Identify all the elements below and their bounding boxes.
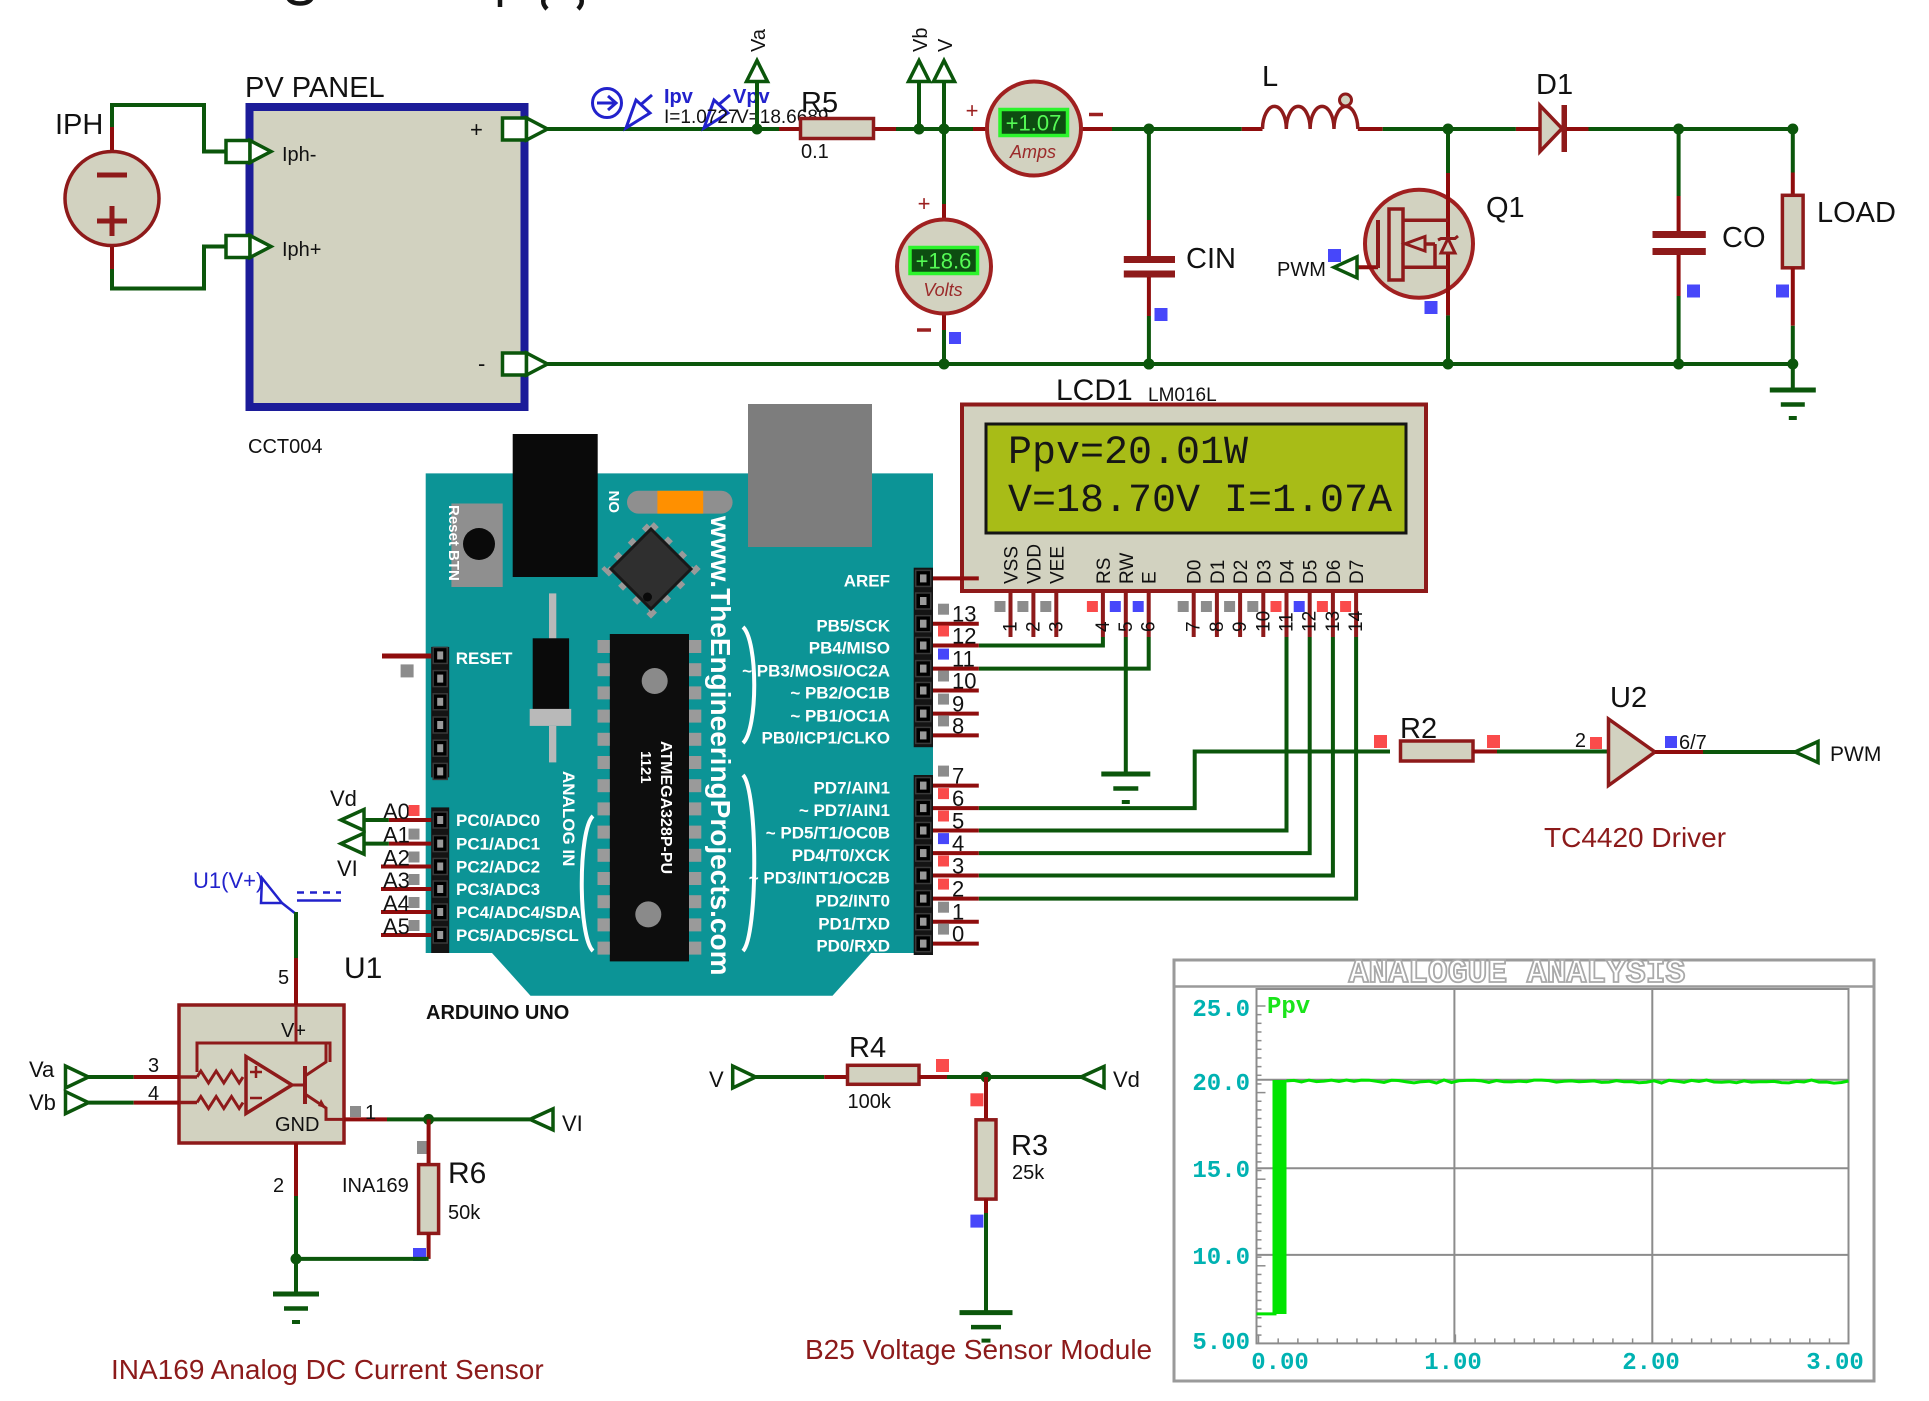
svg-text:Ipv: Ipv <box>664 86 694 108</box>
svg-text:V: V <box>935 38 957 52</box>
capacitor CO <box>1653 129 1766 364</box>
wire LCD D6 to Arduino 3 <box>979 637 1333 876</box>
current probe Ipv <box>593 89 622 118</box>
svg-text:INA169 Analog DC Current Senso: INA169 Analog DC Current Sensor <box>111 1354 544 1385</box>
svg-text:VI: VI <box>562 1111 583 1136</box>
svg-text:2: 2 <box>952 877 964 902</box>
svg-text:~ PD3/INT1/OC2B: ~ PD3/INT1/OC2B <box>749 869 890 888</box>
svg-text:PD0/RXD: PD0/RXD <box>816 937 890 956</box>
wire IPH to Iph+ input <box>112 247 226 289</box>
svg-text:D3: D3 <box>1254 560 1275 584</box>
wire R3 to ground <box>984 1213 988 1313</box>
probe arrow Ipv <box>626 95 652 128</box>
terminal Vd output <box>1081 1067 1104 1088</box>
graph x axis labels <box>1251 1334 1864 1377</box>
svg-text:RW: RW <box>1117 553 1138 584</box>
svg-text:CCT004: CCT004 <box>248 436 322 458</box>
LCD pin 7 D0 <box>1178 560 1206 637</box>
svg-text:10: 10 <box>952 669 976 694</box>
node Va junction <box>752 124 763 135</box>
pin 2 U1 <box>294 1143 298 1196</box>
wire R6 to ground bus <box>296 1257 429 1261</box>
wire LCD RS to Arduino 12 <box>979 637 1103 646</box>
terminal V <box>934 61 955 82</box>
svg-text:D2: D2 <box>1231 560 1252 584</box>
ammeter +1.07 Amps <box>966 82 1103 176</box>
header digital 8-13 AREF <box>914 568 933 748</box>
transistor Q1 MOSFET <box>1357 129 1525 364</box>
svg-text:PD1/TXD: PD1/TXD <box>818 915 890 934</box>
current source IPH <box>55 109 159 269</box>
LCD pin 8 D1 <box>1201 560 1229 637</box>
pin PD7/AIN1 <box>813 764 978 798</box>
svg-text:Va: Va <box>748 28 770 52</box>
terminal Vb input <box>66 1092 89 1114</box>
node VI junction <box>423 1114 434 1125</box>
svg-text:Vd: Vd <box>330 786 357 811</box>
resistor R6 50k <box>419 1119 487 1259</box>
svg-text:D5: D5 <box>1301 560 1322 584</box>
svg-text:Vpv: Vpv <box>733 86 771 108</box>
svg-text:3.00: 3.00 <box>1806 1350 1864 1377</box>
pin ~ PB2/OC1B <box>790 669 978 703</box>
terminal PWM output <box>1795 742 1818 763</box>
svg-text:A2: A2 <box>383 846 410 871</box>
svg-text:~ PB3/MOSI/OC2A: ~ PB3/MOSI/OC2A <box>742 662 890 681</box>
svg-text:E: E <box>1140 571 1161 584</box>
svg-text:PC1/ADC1: PC1/ADC1 <box>456 835 540 854</box>
node Q1 drain <box>1443 124 1454 135</box>
pin A0 <box>383 799 431 824</box>
LCD pin 4 RS <box>1087 558 1115 637</box>
node bus CIN <box>1143 359 1154 370</box>
svg-text:TC4420 Driver: TC4420 Driver <box>1544 822 1726 853</box>
svg-text:15.0: 15.0 <box>1192 1158 1250 1185</box>
pin A3 <box>381 868 431 893</box>
svg-text:RESET: RESET <box>456 649 513 668</box>
svg-text:Volts: Volts <box>923 280 962 300</box>
svg-text:PD4/T0/XCK: PD4/T0/XCK <box>792 846 891 865</box>
node CO bottom <box>1673 359 1684 370</box>
LCD pin 11 D4 <box>1271 559 1299 637</box>
svg-text:50k: 50k <box>448 1202 481 1224</box>
LCD pin 10 D3 <box>1247 560 1275 637</box>
svg-text:7: 7 <box>1184 621 1205 632</box>
svg-text:PC0/ADC0: PC0/ADC0 <box>456 811 540 830</box>
LCD pin 9 D2 <box>1224 560 1252 637</box>
capacitor CIN <box>1124 129 1236 364</box>
svg-text:Iph-: Iph- <box>282 144 316 166</box>
svg-text:U1(V+): U1(V+) <box>193 868 263 893</box>
pin 5 U1 <box>294 958 298 1005</box>
node CO top <box>1673 124 1684 135</box>
svg-text:V+: V+ <box>281 1020 306 1042</box>
svg-text:0: 0 <box>952 922 964 947</box>
pin ~ PB1/OC1A <box>790 692 978 726</box>
header ANALOG A0-A5 <box>431 807 449 953</box>
svg-text:13: 13 <box>1323 611 1344 632</box>
voltmeter +18.6 Volts <box>897 191 991 364</box>
terminal panel + <box>503 118 527 140</box>
svg-text:8: 8 <box>952 713 964 738</box>
svg-text:2: 2 <box>1575 730 1586 752</box>
node Vd junction <box>981 1072 992 1083</box>
node Q1 source <box>1443 359 1454 370</box>
terminal Vb <box>909 61 930 82</box>
svg-text:PD2/INT0: PD2/INT0 <box>815 892 890 911</box>
pin PB5/SCK <box>816 602 978 636</box>
svg-text:~ PB2/OC1B: ~ PB2/OC1B <box>790 684 890 703</box>
svg-text:R3: R3 <box>1011 1130 1048 1162</box>
svg-text:~ PD5/T1/OC0B: ~ PD5/T1/OC0B <box>766 824 890 843</box>
node CIN bottom <box>1143 359 1154 370</box>
svg-text:10: 10 <box>1253 611 1274 632</box>
svg-text:PB4/MISO: PB4/MISO <box>809 639 890 658</box>
svg-text:CIN: CIN <box>1186 243 1236 275</box>
svg-text:LOAD: LOAD <box>1817 197 1896 229</box>
LCD pin 5 RW <box>1110 553 1138 637</box>
svg-text:VDD: VDD <box>1024 544 1045 584</box>
terminal panel - <box>503 353 527 375</box>
svg-text:0.1: 0.1 <box>801 141 829 163</box>
pin ~ PB3/MOSI/OC2A <box>742 647 979 681</box>
svg-text:Vb: Vb <box>910 28 932 52</box>
LCD pin 2 VDD <box>1017 544 1045 637</box>
op-amp U1 INA169 <box>179 952 382 1143</box>
svg-text:D7: D7 <box>1347 560 1368 584</box>
wire LCD RW to ground <box>1124 637 1128 774</box>
svg-text:PC2/ADC2: PC2/ADC2 <box>456 858 540 877</box>
svg-text:2: 2 <box>1023 621 1044 632</box>
svg-text:AREF: AREF <box>844 571 890 590</box>
svg-text:Iph+: Iph+ <box>282 239 321 261</box>
ground LCD RW <box>1101 772 1150 777</box>
svg-text:R5: R5 <box>801 87 838 119</box>
resistor R5 0.1 <box>801 87 874 163</box>
svg-text:VSS: VSS <box>1002 546 1023 584</box>
svg-text:~ PB1/OC1A: ~ PB1/OC1A <box>790 707 890 726</box>
resistor R4 100k <box>848 1032 920 1113</box>
svg-text:CO: CO <box>1722 222 1766 254</box>
svg-text:PB0/ICP1/CLKO: PB0/ICP1/CLKO <box>762 728 890 747</box>
svg-text:+1.07: +1.07 <box>1006 111 1062 136</box>
wire top bus <box>548 129 1793 173</box>
svg-text:ON: ON <box>606 491 623 514</box>
svg-text:A5: A5 <box>383 914 410 939</box>
Arduino Uno board <box>426 404 933 1024</box>
svg-text:Q1: Q1 <box>1486 192 1525 224</box>
svg-text:PB5/SCK: PB5/SCK <box>816 617 890 636</box>
LCD pin 6 E <box>1133 571 1161 637</box>
terminal VI to A1 <box>341 833 364 854</box>
svg-text:PWM: PWM <box>1830 743 1881 766</box>
graph y axis labels <box>1192 997 1265 1357</box>
svg-text:D1: D1 <box>1208 560 1229 584</box>
terminal Vd to A0 <box>341 810 364 831</box>
pin ~ PD7/AIN1 <box>799 786 979 820</box>
wire U2 to PWM <box>1655 750 1703 754</box>
svg-text:INA169: INA169 <box>342 1175 409 1197</box>
node LOAD bottom <box>1787 359 1798 370</box>
pin PD4/T0/XCK <box>792 831 979 865</box>
probe arrow Vpv <box>704 95 730 128</box>
wire LCD D7 to Arduino 2 <box>979 637 1356 899</box>
svg-text:LCD1: LCD1 <box>1056 374 1133 407</box>
wire U1 V+ supply <box>294 912 298 958</box>
svg-text:U2: U2 <box>1610 682 1647 714</box>
node CIN top <box>1143 124 1154 135</box>
svg-text:L: L <box>1262 61 1278 93</box>
wire bottom bus <box>548 362 1793 366</box>
svg-text:Vb: Vb <box>29 1090 56 1115</box>
svg-text:PD7/AIN1: PD7/AIN1 <box>813 779 890 798</box>
LCD pin 14 D7 <box>1340 560 1368 637</box>
terminal Va input <box>66 1066 89 1088</box>
terminal Iph- <box>226 141 250 163</box>
svg-text:6: 6 <box>952 786 964 811</box>
graph trace Ppv <box>1257 1310 1276 1314</box>
probe U1(V+) <box>261 878 341 914</box>
svg-text:Amps: Amps <box>1009 142 1056 162</box>
ground main <box>1791 364 1795 390</box>
svg-text:2: 2 <box>273 1175 284 1197</box>
svg-text:PC4/ADC4/SDA: PC4/ADC4/SDA <box>456 903 581 922</box>
svg-text:-: - <box>478 351 485 376</box>
svg-text:D0: D0 <box>1185 560 1206 584</box>
svg-text:11: 11 <box>1277 612 1298 632</box>
LCD pin 12 D5 <box>1294 560 1322 637</box>
svg-text:+: + <box>470 117 483 142</box>
svg-text:20.0: 20.0 <box>1192 1071 1250 1098</box>
terminal Va <box>747 61 768 82</box>
LCD pin 3 VEE <box>1040 546 1068 637</box>
svg-text:V=18.70V I=1.07A: V=18.70V I=1.07A <box>1008 479 1392 524</box>
svg-text:RS: RS <box>1094 558 1115 584</box>
svg-text:5: 5 <box>1116 621 1137 632</box>
terminal Iph+ <box>226 236 250 258</box>
terminal VI output <box>530 1109 553 1130</box>
svg-text:0.00: 0.00 <box>1251 1350 1309 1377</box>
svg-text:PV PANEL: PV PANEL <box>245 72 385 104</box>
svg-text:12: 12 <box>952 624 976 649</box>
resistor R3 25k <box>976 1077 1048 1213</box>
svg-text:1121: 1121 <box>637 751 654 784</box>
wire LCD D4 to Arduino 5 <box>979 637 1287 831</box>
svg-text:R6: R6 <box>448 1157 486 1190</box>
svg-text:D6: D6 <box>1324 560 1345 584</box>
svg-text:1: 1 <box>1001 621 1022 632</box>
node voltmeter bottom <box>939 359 950 370</box>
svg-text:~ PD7/AIN1: ~ PD7/AIN1 <box>799 801 890 820</box>
pin PB0/ICP1/CLKO <box>762 713 979 747</box>
svg-text:1.00: 1.00 <box>1424 1350 1482 1377</box>
svg-text:A3: A3 <box>383 868 410 893</box>
svg-text:LM016L: LM016L <box>1148 385 1217 406</box>
resistor LOAD <box>1782 173 1896 365</box>
wire IPH to Iph- input <box>112 105 226 152</box>
node U1 ground <box>291 1253 302 1264</box>
svg-text:7: 7 <box>952 764 964 789</box>
title fragment (cropped) <box>288 0 582 9</box>
node LOAD top <box>1787 124 1798 135</box>
svg-text:D1: D1 <box>1536 69 1573 101</box>
wire R2 to U2 <box>1473 750 1497 754</box>
svg-text:PC3/ADC3: PC3/ADC3 <box>456 880 540 899</box>
svg-text:R2: R2 <box>1400 713 1437 745</box>
ground U1 <box>294 1259 298 1294</box>
svg-text:GND: GND <box>275 1114 319 1136</box>
pin A1 <box>383 823 431 848</box>
svg-text:PC5/ADC5/SCL: PC5/ADC5/SCL <box>456 926 579 945</box>
svg-text:ANALOGUE ANALYSIS: ANALOGUE ANALYSIS <box>1349 955 1686 992</box>
header digital 0-7 <box>914 775 933 955</box>
LCD pin 1 VSS <box>995 546 1023 637</box>
svg-text:3: 3 <box>952 854 964 879</box>
svg-text:IPH: IPH <box>55 109 103 141</box>
buffer U2 TC4420 <box>1575 682 1655 786</box>
svg-text:+18.6: +18.6 <box>916 249 972 274</box>
svg-text:5: 5 <box>952 809 964 834</box>
svg-text:A4: A4 <box>383 891 410 916</box>
svg-text:ATMEGA328P-PU: ATMEGA328P-PU <box>657 741 674 874</box>
svg-text:+: + <box>918 191 931 216</box>
svg-text:12: 12 <box>1300 611 1321 632</box>
ground B25 <box>960 1310 1013 1315</box>
terminal PWM gate <box>1334 257 1357 278</box>
PV panel CCT004 <box>245 72 525 458</box>
pin ~ PD5/T1/OC0B <box>766 809 979 843</box>
LCD1 LM016L display <box>962 374 1426 591</box>
wire LCD E to Arduino 11 <box>979 637 1149 669</box>
pin ~ PD3/INT1/OC2B <box>749 854 979 888</box>
node Vb junction <box>914 124 925 135</box>
diode D1 <box>1536 69 1573 152</box>
svg-text:VEE: VEE <box>1047 546 1068 584</box>
svg-text:2.00: 2.00 <box>1622 1350 1680 1377</box>
pin PD1/TXD <box>818 900 979 934</box>
svg-text:R4: R4 <box>849 1032 886 1064</box>
svg-text:10.0: 10.0 <box>1192 1245 1250 1272</box>
pin A4 <box>381 891 431 916</box>
svg-text:14: 14 <box>1346 610 1367 632</box>
svg-text:8: 8 <box>1207 621 1228 632</box>
svg-text:5.00: 5.00 <box>1192 1330 1250 1357</box>
graph ANALOGUE ANALYSIS <box>1174 955 1874 1381</box>
wire LCD D5 to Arduino 4 <box>979 637 1310 853</box>
svg-text:U1: U1 <box>344 952 382 985</box>
svg-text:Vd: Vd <box>1113 1067 1140 1092</box>
pin A2 <box>381 846 431 871</box>
resistor R2 <box>1400 713 1473 761</box>
pin PD2/INT0 <box>815 877 978 911</box>
svg-text:3: 3 <box>148 1055 159 1077</box>
node V junction <box>939 124 950 135</box>
pin 1 U1 output <box>344 1117 387 1121</box>
LCD pin 13 D6 <box>1317 560 1345 637</box>
svg-text:Ppv: Ppv <box>1267 994 1310 1021</box>
svg-text:PWM: PWM <box>1277 259 1326 281</box>
wire RESET stub <box>382 654 431 659</box>
pin PD0/RXD <box>816 922 978 956</box>
svg-text:D4: D4 <box>1278 559 1299 584</box>
pin A5 <box>381 914 431 939</box>
terminal V input <box>733 1066 756 1088</box>
inductor L <box>1262 61 1358 129</box>
wire R4 to Vd <box>919 1075 947 1079</box>
wire Arduino 6 to R2 (PWM) <box>979 752 1390 809</box>
svg-text:4: 4 <box>1093 621 1114 632</box>
pin AREF <box>844 571 979 590</box>
svg-text:I=1.0727: I=1.0727 <box>664 107 739 128</box>
svg-text:3: 3 <box>1046 621 1067 632</box>
svg-text:Ppv=20.01W: Ppv=20.01W <box>1008 431 1248 476</box>
svg-text:9: 9 <box>1230 621 1251 632</box>
svg-text:4: 4 <box>952 831 964 856</box>
svg-text:25.0: 25.0 <box>1192 997 1250 1024</box>
svg-text:V: V <box>709 1067 724 1092</box>
svg-text:6: 6 <box>1139 621 1160 632</box>
svg-text:25k: 25k <box>1012 1162 1045 1184</box>
svg-text:100k: 100k <box>848 1091 892 1113</box>
svg-text:VI: VI <box>337 856 358 881</box>
header RESET <box>431 647 513 780</box>
svg-text:ARDUINO UNO: ARDUINO UNO <box>426 1002 569 1024</box>
svg-text:www.TheEngineeringProjects.com: www.TheEngineeringProjects.com <box>705 515 736 976</box>
svg-text:+: + <box>966 98 979 123</box>
svg-text:Reset BTN: Reset BTN <box>445 505 462 581</box>
svg-text:ANALOG IN: ANALOG IN <box>559 771 578 866</box>
svg-text:5: 5 <box>278 967 289 989</box>
svg-text:1: 1 <box>365 1102 376 1124</box>
pin PB4/MISO <box>809 624 979 658</box>
svg-text:B25 Voltage Sensor Module: B25 Voltage Sensor Module <box>805 1334 1152 1365</box>
svg-text:Va: Va <box>29 1057 55 1082</box>
